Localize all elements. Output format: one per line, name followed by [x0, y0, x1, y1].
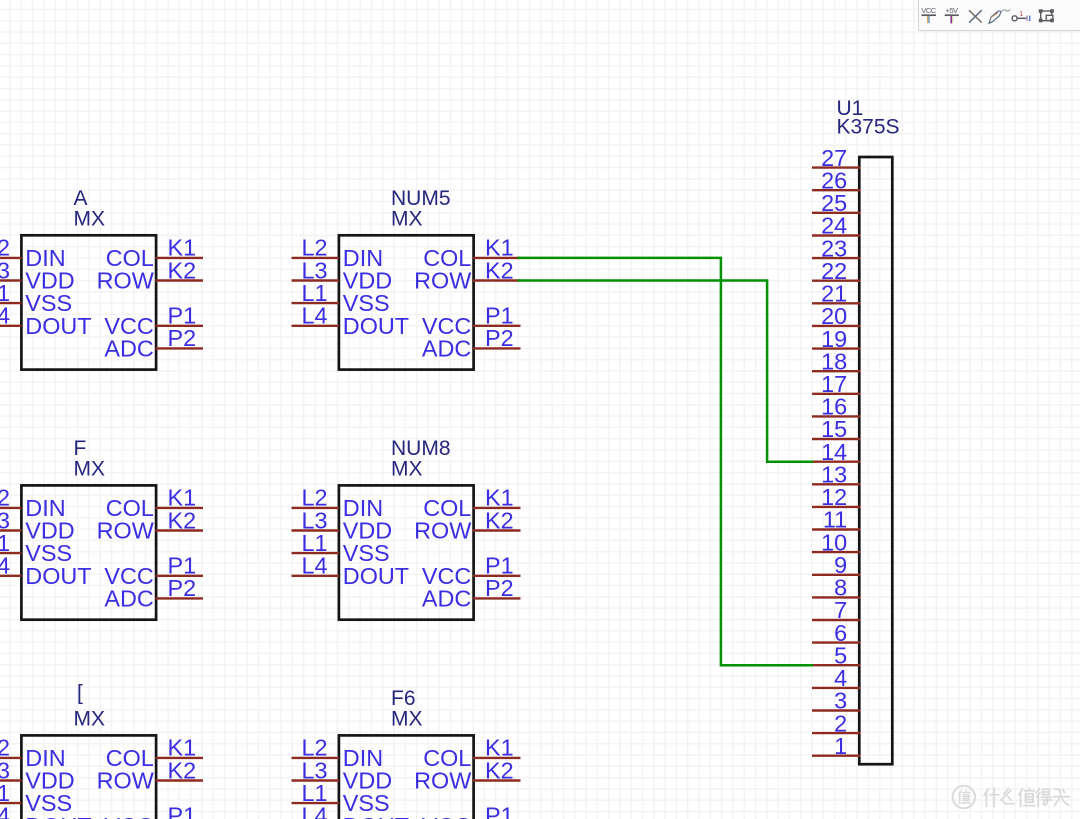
svg-text:1: 1: [834, 733, 847, 759]
svg-text:L4: L4: [0, 803, 10, 819]
svg-text:1: 1: [1019, 11, 1023, 18]
svg-text:L4: L4: [301, 803, 327, 819]
svg-text:ROW: ROW: [414, 768, 471, 794]
svg-text:MX: MX: [74, 458, 106, 481]
svg-text:ADC: ADC: [422, 585, 471, 611]
svg-text:K2: K2: [485, 257, 514, 283]
svg-text:ADC: ADC: [104, 335, 153, 361]
svg-text:L4: L4: [301, 303, 327, 329]
svg-text:DOUT: DOUT: [343, 563, 409, 589]
svg-text:L4: L4: [301, 553, 327, 579]
svg-text:ADC: ADC: [422, 335, 471, 361]
svg-text:VCC: VCC: [104, 813, 153, 819]
svg-text:DOUT: DOUT: [25, 813, 91, 819]
svg-text:K2: K2: [167, 257, 196, 283]
svg-text:ROW: ROW: [414, 268, 471, 294]
svg-text:L4: L4: [0, 303, 10, 329]
svg-text:ROW: ROW: [97, 768, 154, 794]
svg-text:MX: MX: [391, 458, 423, 481]
svg-text:DOUT: DOUT: [25, 313, 91, 339]
svg-text:K2: K2: [485, 507, 514, 533]
svg-text:VCC: VCC: [422, 813, 471, 819]
svg-text:P2: P2: [167, 325, 196, 351]
svg-text:ADC: ADC: [104, 585, 153, 611]
svg-text:K2: K2: [167, 507, 196, 533]
svg-text:L4: L4: [0, 553, 10, 579]
svg-text:MX: MX: [391, 208, 423, 231]
svg-text:ROW: ROW: [97, 518, 154, 544]
svg-text:K2: K2: [167, 757, 196, 783]
svg-text:[: [: [77, 682, 83, 705]
svg-text:DOUT: DOUT: [25, 563, 91, 589]
svg-text:K2: K2: [485, 757, 514, 783]
svg-text:P2: P2: [485, 575, 514, 601]
svg-text:ROW: ROW: [97, 268, 154, 294]
svg-text:P1: P1: [167, 803, 196, 819]
svg-text:ROW: ROW: [414, 518, 471, 544]
svg-text:DOUT: DOUT: [343, 313, 409, 339]
svg-text:P2: P2: [167, 575, 196, 601]
svg-text:DOUT: DOUT: [343, 813, 409, 819]
svg-text:K375S: K375S: [837, 116, 900, 139]
svg-text:VCC: VCC: [921, 6, 936, 15]
svg-text:P2: P2: [485, 325, 514, 351]
svg-text:+5V: +5V: [945, 6, 958, 15]
svg-text:P1: P1: [485, 803, 514, 819]
svg-text:MX: MX: [74, 708, 106, 731]
svg-text:MX: MX: [74, 208, 106, 231]
svg-text:MX: MX: [391, 708, 423, 731]
